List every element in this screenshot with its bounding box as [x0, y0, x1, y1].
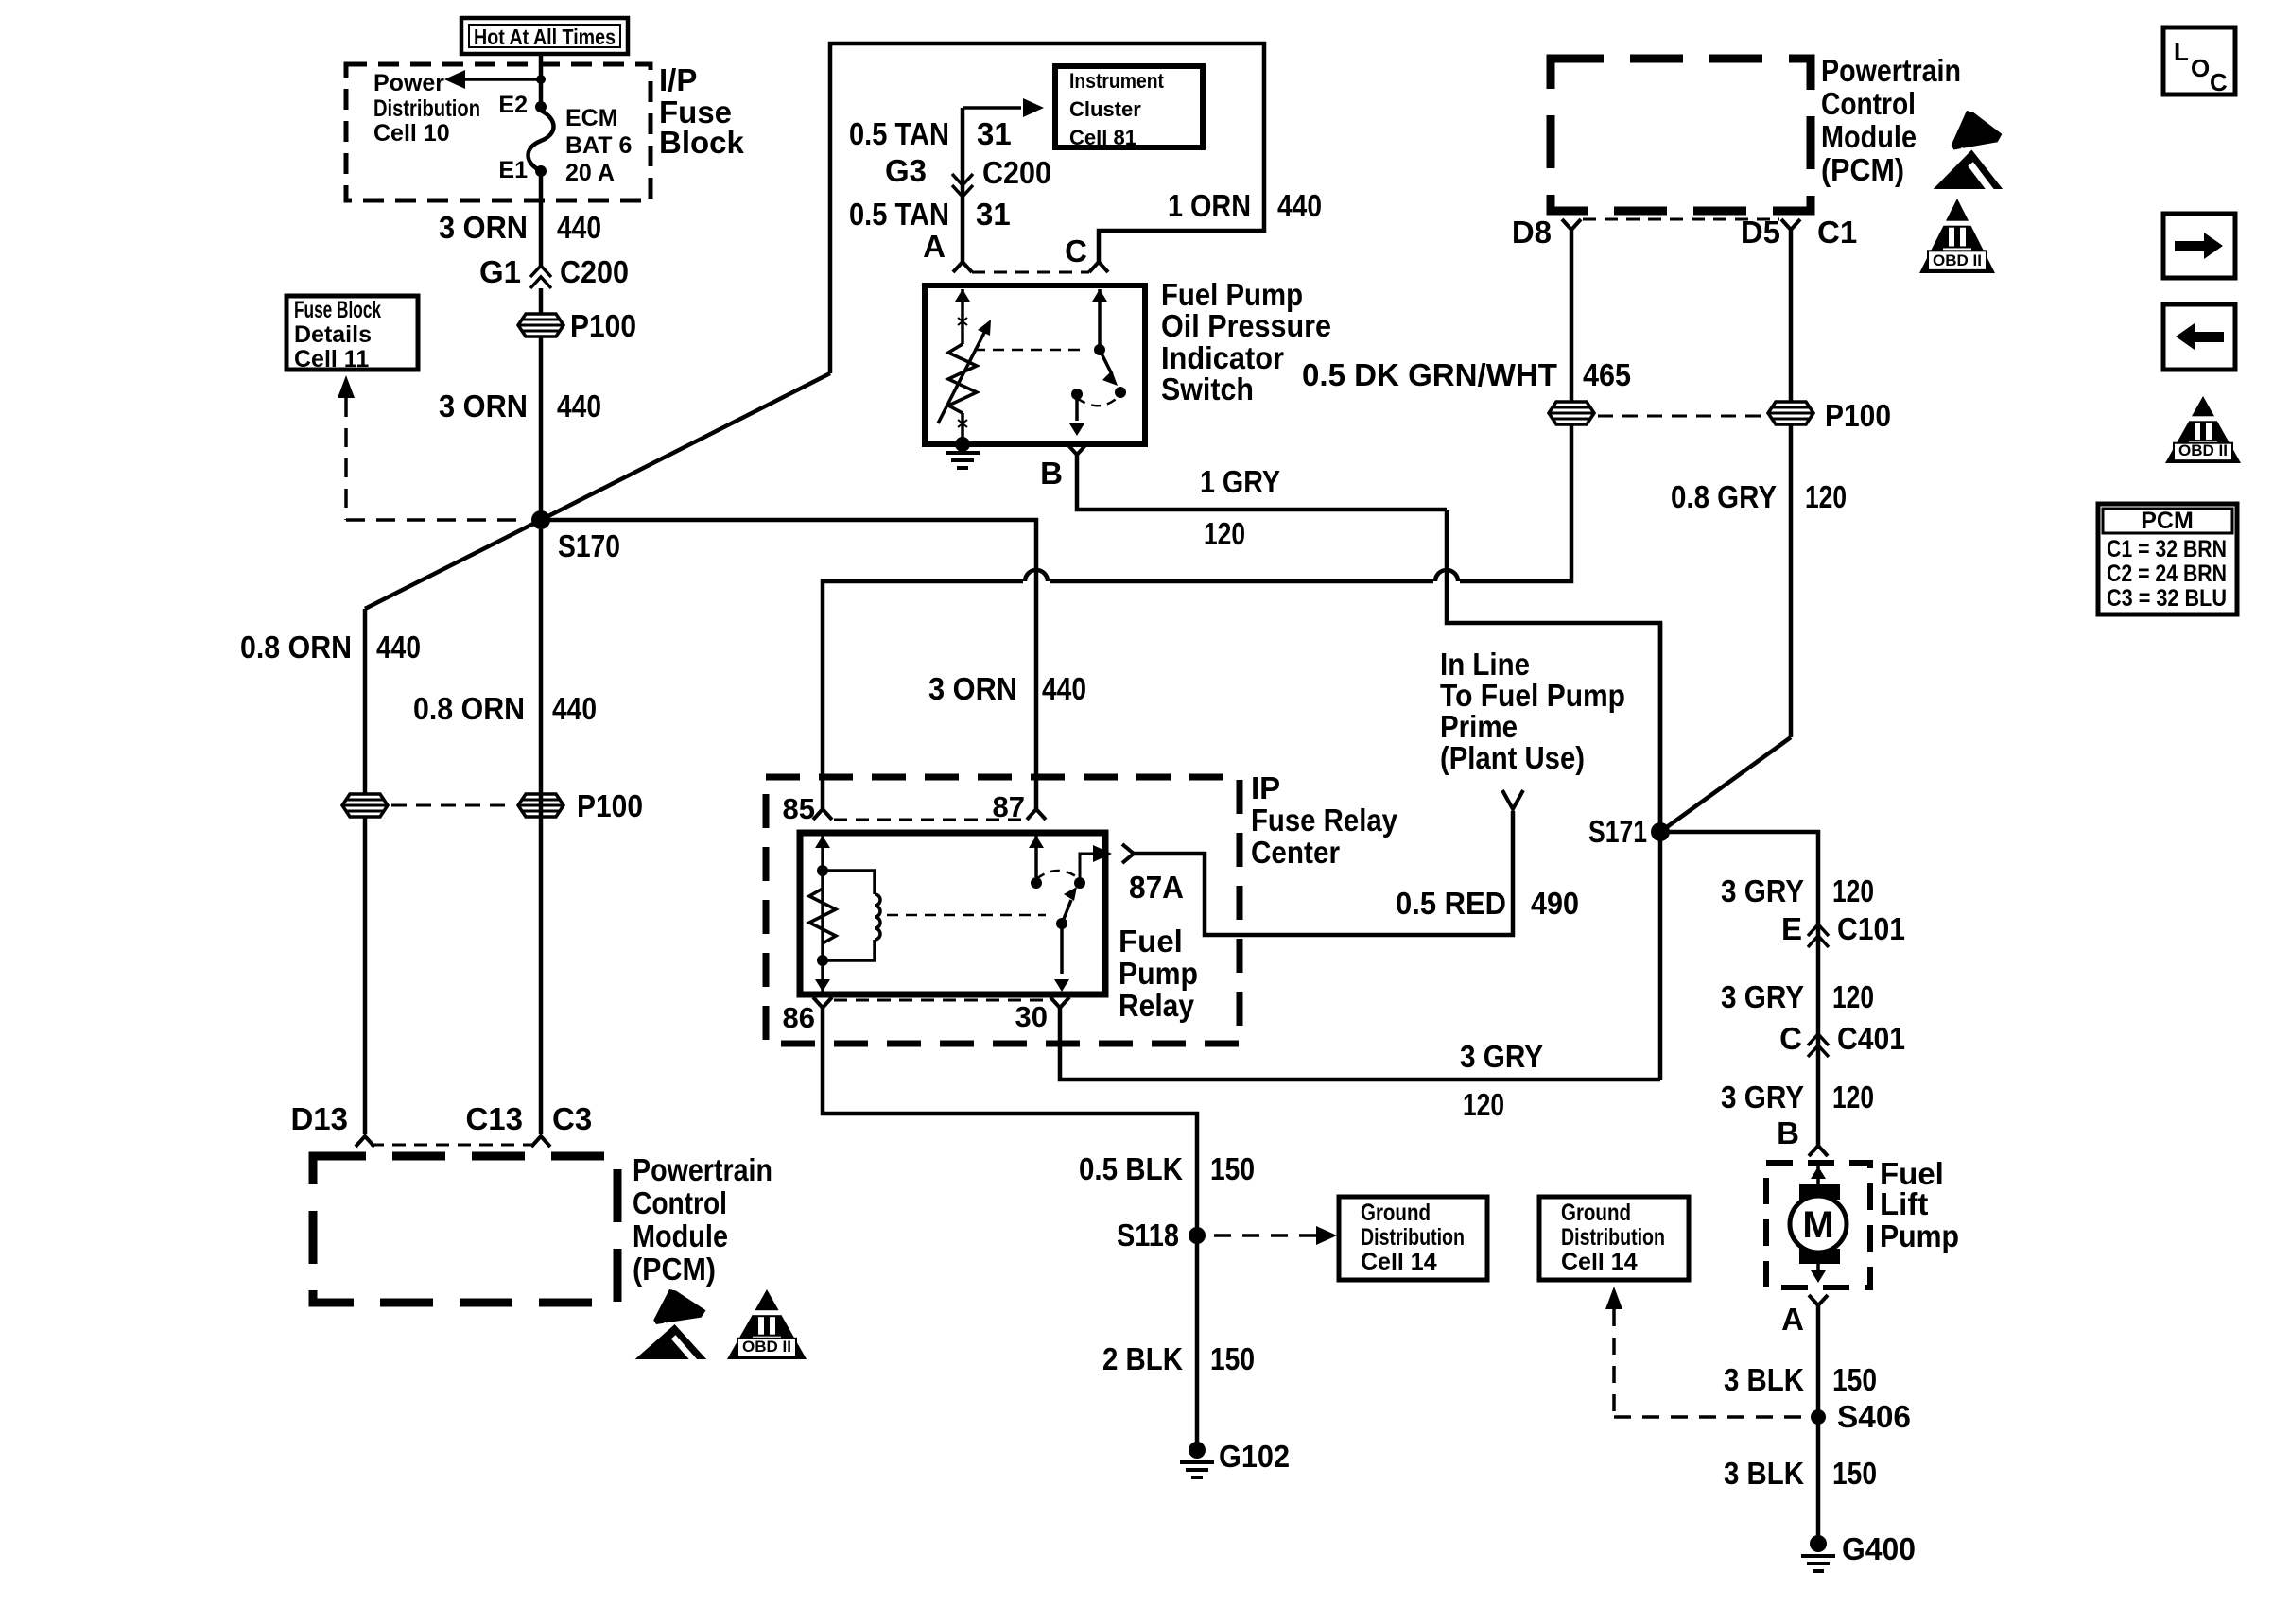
pin in line fuel pump prime — [1502, 790, 1523, 809]
connector P100 (2) left — [342, 794, 388, 817]
dashed arrow S118 to ground distribution — [1214, 1226, 1337, 1245]
svg-text:S406: S406 — [1837, 1399, 1911, 1434]
switch contact C leg — [1092, 289, 1107, 355]
pin dashed line A-C — [972, 271, 1089, 274]
svg-text:Cell 14: Cell 14 — [1561, 1249, 1638, 1275]
svg-text:440: 440 — [557, 210, 601, 245]
svg-text:440: 440 — [1042, 671, 1086, 706]
svg-text:In Line: In Line — [1440, 647, 1530, 682]
svg-text:B: B — [1040, 456, 1063, 491]
svg-text:To Fuel Pump: To Fuel Pump — [1440, 678, 1625, 713]
switch contact blade — [1100, 350, 1118, 386]
svg-text:S118: S118 — [1117, 1218, 1179, 1253]
pin B pump — [1777, 1115, 1828, 1156]
svg-text:0.5 TAN: 0.5 TAN — [849, 197, 949, 232]
pin dashed line 85-87 — [834, 819, 1025, 821]
svg-text:150: 150 — [1832, 1456, 1877, 1491]
svg-text:Hot At All Times: Hot At All Times — [474, 25, 616, 49]
svg-text:1 ORN: 1 ORN — [1168, 188, 1251, 223]
wire 1 GRY B to S171 — [1077, 455, 1660, 832]
sender arrow up — [955, 289, 970, 344]
wire branch to instrument cluster — [961, 108, 965, 262]
PCM connector table — [2098, 504, 2237, 614]
switch contact dot right — [1115, 387, 1126, 398]
svg-text:C2 = 24 BRN: C2 = 24 BRN — [2107, 561, 2227, 587]
relay dashed actuator — [887, 914, 1046, 917]
svg-text:C101: C101 — [1837, 911, 1905, 946]
fuse ECM BAT 6 20A — [529, 105, 633, 186]
wire 86 to S118 — [823, 1008, 1197, 1235]
svg-text:440: 440 — [557, 389, 601, 423]
wire 30 to S171 — [1060, 1008, 1660, 1080]
label 3 ORN 440 (3) — [928, 671, 1086, 706]
svg-text:440: 440 — [1277, 188, 1322, 223]
wire D8 down — [1570, 230, 1574, 402]
svg-text:E1: E1 — [498, 157, 528, 183]
svg-text:Powertrain: Powertrain — [1821, 53, 1961, 88]
svg-text:120: 120 — [1805, 479, 1847, 514]
svg-text:S170: S170 — [558, 528, 620, 563]
resistor adjust arrow — [938, 320, 991, 423]
connector C101 — [1781, 911, 1905, 947]
svg-text:87A: 87A — [1129, 870, 1184, 905]
pin 87A — [1122, 844, 1184, 905]
label 3 BLK 150 (1) — [1724, 1362, 1877, 1397]
svg-text:30: 30 — [1015, 1000, 1048, 1033]
label 3 ORN 440 (1) — [439, 210, 601, 245]
pin D13 — [290, 1101, 374, 1147]
svg-text:Fuel: Fuel — [1119, 924, 1183, 959]
wire 3 ORN trunk up and across top — [830, 43, 1264, 373]
svg-text:Fuse Relay: Fuse Relay — [1251, 803, 1398, 838]
Fuse Block Details Cell 11 box — [286, 296, 418, 372]
In Line To Fuel Pump Prime label — [1440, 647, 1625, 775]
svg-text:3 GRY: 3 GRY — [1721, 979, 1804, 1014]
connector P100 (3) mid — [518, 788, 643, 823]
svg-text:Cell 81: Cell 81 — [1069, 126, 1136, 149]
relay label — [1119, 924, 1198, 1023]
wire D8 connector to relay coil line — [1460, 425, 1571, 581]
splice S171 — [1588, 814, 1670, 849]
svg-text:C3 = 32 BLU: C3 = 32 BLU — [2107, 585, 2227, 612]
svg-text:0.5 TAN: 0.5 TAN — [849, 116, 949, 151]
label 0.5 RED 490 — [1396, 886, 1579, 921]
label 3 BLK 150 (2) — [1724, 1456, 1877, 1491]
dashed pointer to Fuse Block Details — [338, 375, 528, 520]
Power Distribution Cell 10 label — [373, 70, 480, 147]
svg-text:Details: Details — [294, 321, 372, 348]
IP Fuse Relay Center dashed box — [766, 777, 1240, 1044]
splice S406 — [1811, 1399, 1911, 1434]
pin D8 — [1512, 215, 1581, 250]
svg-text:120: 120 — [1832, 1080, 1874, 1114]
IP Fuse Relay Center label — [1251, 770, 1398, 870]
svg-text:Fuse Block: Fuse Block — [294, 297, 381, 323]
svg-text:OBD II: OBD II — [2178, 441, 2228, 459]
ground G400 — [1801, 1531, 1916, 1571]
pin 87 — [993, 790, 1046, 823]
svg-text:Switch: Switch — [1161, 371, 1254, 406]
wire C200 to P100 — [539, 288, 544, 314]
svg-text:G1: G1 — [479, 254, 521, 289]
wire S171 riser — [1658, 623, 1663, 1080]
svg-text:A: A — [923, 229, 946, 264]
connector P100 (1) — [518, 308, 636, 343]
terminal E2 — [498, 92, 547, 118]
svg-text:Distribution: Distribution — [1561, 1224, 1665, 1251]
svg-text:S171: S171 — [1588, 814, 1647, 849]
Fuel Lift Pump dashed box — [1766, 1163, 1870, 1287]
svg-text:OBD II: OBD II — [742, 1338, 791, 1356]
svg-text:2 BLK: 2 BLK — [1102, 1341, 1183, 1376]
pin dashed line D8-D5 — [1583, 218, 1779, 221]
svg-text:3 BLK: 3 BLK — [1724, 1456, 1804, 1491]
sender x marks — [958, 318, 967, 427]
svg-text:Cluster: Cluster — [1069, 97, 1141, 121]
Fuel Pump Relay box — [800, 833, 1105, 994]
svg-text:120: 120 — [1832, 979, 1874, 1014]
OBD II symbol legend — [2165, 396, 2241, 463]
OBD II symbol lower — [727, 1289, 807, 1359]
dashed link P100 pair — [391, 804, 514, 807]
svg-text:3 BLK: 3 BLK — [1724, 1362, 1804, 1397]
connector 465 inline — [1549, 402, 1594, 424]
svg-text:C13: C13 — [465, 1101, 523, 1136]
svg-text:C200: C200 — [560, 254, 629, 289]
switch internal dashed link — [974, 349, 1087, 352]
pin 85 — [783, 792, 832, 825]
svg-text:D8: D8 — [1512, 215, 1552, 250]
svg-text:E: E — [1781, 911, 1802, 946]
svg-text:I/P: I/P — [659, 62, 697, 97]
svg-text:Distribution: Distribution — [373, 95, 480, 122]
label 3 GRY 120 (c) — [1721, 1080, 1874, 1114]
svg-text:O: O — [2191, 54, 2210, 82]
svg-text:3 GRY: 3 GRY — [1460, 1039, 1543, 1074]
wire S118 to G102 — [1195, 1235, 1200, 1450]
svg-text:BAT 6: BAT 6 — [565, 132, 632, 159]
relay moving leg — [1054, 924, 1069, 992]
relay coil — [823, 871, 880, 960]
svg-text:Cell 14: Cell 14 — [1361, 1249, 1437, 1275]
wire E1 down to C200 — [539, 171, 544, 266]
svg-text:E2: E2 — [498, 92, 528, 118]
svg-text:Ground: Ground — [1561, 1200, 1631, 1226]
wire resistor to ground dot — [961, 413, 964, 444]
svg-text:Relay: Relay — [1119, 988, 1195, 1023]
svg-text:G102: G102 — [1219, 1439, 1290, 1474]
svg-text:G3: G3 — [885, 153, 927, 188]
svg-text:Cell 10: Cell 10 — [373, 120, 450, 147]
svg-text:120: 120 — [1832, 873, 1874, 908]
connector P100 (4) right — [1768, 398, 1891, 433]
svg-text:Fuel Pump: Fuel Pump — [1161, 277, 1303, 312]
svg-text:31: 31 — [976, 197, 1011, 232]
wire C1 down — [1789, 230, 1794, 737]
wire relay coil line mid — [1050, 579, 1433, 584]
wire 87A to prime — [1134, 811, 1513, 935]
svg-text:150: 150 — [1832, 1362, 1877, 1397]
LOC box — [2163, 27, 2235, 96]
svg-text:3 ORN: 3 ORN — [439, 210, 528, 245]
ESD symbol lower — [635, 1289, 707, 1365]
pin C13 C3 — [465, 1101, 592, 1147]
svg-text:C1 = 32 BRN: C1 = 32 BRN — [2107, 536, 2227, 562]
svg-text:3 GRY: 3 GRY — [1721, 873, 1804, 908]
dashed link to P100 — [1598, 415, 1764, 418]
svg-text:3 ORN: 3 ORN — [928, 671, 1017, 706]
svg-text:Powertrain: Powertrain — [633, 1152, 772, 1187]
svg-text:490: 490 — [1531, 886, 1579, 921]
label 0.8 ORN 440 (1) — [240, 630, 421, 665]
svg-text:85: 85 — [783, 792, 815, 825]
svg-text:0.5 DK GRN/WHT: 0.5 DK GRN/WHT — [1302, 357, 1557, 392]
svg-text:L: L — [2174, 38, 2189, 66]
label 2 BLK 150 — [1102, 1341, 1255, 1376]
Ground Distribution Cell 14 box (1) — [1339, 1197, 1487, 1280]
relay dashed arc — [1036, 871, 1080, 879]
svg-text:G400: G400 — [1842, 1531, 1916, 1566]
label 3 GRY 120 (b) — [1721, 979, 1874, 1014]
pin 30 — [1015, 997, 1069, 1033]
wire pump to S406 — [1816, 1305, 1821, 1417]
label 3 GRY 120 (a) — [1721, 873, 1874, 908]
svg-text:B: B — [1777, 1115, 1799, 1150]
terminal E1 — [498, 157, 547, 183]
svg-text:P100: P100 — [1825, 398, 1891, 433]
OBD II symbol top — [1919, 199, 1995, 273]
Powertrain Control Module PCM dashed box (top right) — [1551, 59, 1811, 211]
wire relay coil line to pin 85 — [823, 581, 1023, 809]
label 1 GRY 120 — [1200, 464, 1280, 551]
pin dashed line 86-30 — [834, 999, 1049, 1002]
svg-text:150: 150 — [1210, 1151, 1255, 1186]
svg-text:0.5 RED: 0.5 RED — [1396, 886, 1506, 921]
svg-text:120: 120 — [1204, 516, 1245, 551]
svg-text:120: 120 — [1463, 1087, 1504, 1122]
pin C switch — [1065, 233, 1108, 272]
svg-text:C1: C1 — [1817, 215, 1857, 250]
svg-text:440: 440 — [376, 630, 421, 665]
svg-text:0.5 BLK: 0.5 BLK — [1079, 1151, 1183, 1186]
svg-text:A: A — [1781, 1302, 1804, 1337]
pin 86 — [783, 997, 832, 1034]
svg-text:150: 150 — [1210, 1341, 1255, 1376]
svg-text:(PCM): (PCM) — [633, 1252, 716, 1287]
svg-text:C: C — [1065, 233, 1087, 268]
label 0.8 ORN 440 (2) — [413, 691, 597, 726]
pump label — [1880, 1156, 1959, 1253]
svg-text:(PCM): (PCM) — [1821, 152, 1904, 187]
label 0.5 TAN 31 (2) — [849, 197, 1011, 232]
wire S170 to relay 87 — [541, 520, 1036, 809]
variable resistor zigzag — [948, 344, 977, 413]
motor M — [1790, 1166, 1847, 1264]
wire S170 down to C3 — [539, 529, 544, 1134]
connector C200 G1 — [479, 254, 629, 289]
svg-text:C401: C401 — [1837, 1021, 1905, 1056]
relay resistor — [809, 889, 836, 943]
relay 87A contact dot — [1074, 877, 1085, 889]
svg-text:(Plant Use): (Plant Use) — [1440, 740, 1585, 775]
svg-text:Instrument: Instrument — [1069, 69, 1165, 93]
svg-text:Distribution: Distribution — [1361, 1224, 1465, 1251]
svg-text:OBD II: OBD II — [1933, 251, 1982, 269]
junction box label: Hot At All Times — [461, 18, 628, 54]
svg-text:0.8 GRY: 0.8 GRY — [1671, 479, 1777, 514]
arrow to Power Distribution — [444, 70, 546, 89]
wire P100 to S170 — [539, 337, 544, 520]
svg-text:Module: Module — [1821, 119, 1917, 154]
Fuel Pump Oil Pressure Indicator Switch box — [925, 285, 1145, 444]
switch contact B dot — [1071, 389, 1083, 400]
svg-text:M: M — [1802, 1204, 1833, 1246]
label 0.5 TAN 31 (1) — [849, 116, 1012, 151]
svg-text:Cell 11: Cell 11 — [294, 346, 369, 372]
svg-text:D13: D13 — [290, 1101, 348, 1136]
wire S171 to pump top — [1660, 832, 1818, 1146]
pin B switch — [1040, 444, 1086, 491]
svg-text:Indicator: Indicator — [1161, 340, 1284, 375]
label 0.5 DK GRN/WHT 465 — [1302, 357, 1631, 392]
label 0.8 GRY 120 — [1671, 479, 1847, 514]
Powertrain Control Module PCM dashed box (lower left) — [313, 1156, 617, 1303]
svg-text:Control: Control — [1821, 86, 1916, 121]
svg-text:Lift: Lift — [1880, 1186, 1928, 1221]
svg-text:C200: C200 — [982, 155, 1051, 190]
svg-text:ECM: ECM — [565, 105, 618, 131]
svg-text:Power: Power — [373, 70, 444, 96]
connector C200 G3 — [885, 153, 1051, 197]
relay 87 contact — [1029, 836, 1044, 889]
svg-text:C3: C3 — [552, 1101, 592, 1136]
svg-text:Module: Module — [633, 1218, 728, 1253]
svg-text:86: 86 — [783, 1001, 815, 1034]
left arrow box — [2163, 304, 2235, 370]
pin A switch — [923, 229, 972, 272]
svg-text:P100: P100 — [570, 308, 636, 343]
svg-text:440: 440 — [552, 691, 597, 726]
svg-text:3 GRY: 3 GRY — [1721, 1080, 1804, 1114]
label 1 ORN 440 — [1168, 188, 1322, 223]
label 3 ORN 440 (2) — [439, 389, 601, 423]
wire from Hot At All Times to E2 — [539, 56, 544, 107]
wire S406 to G400 — [1816, 1417, 1821, 1544]
switch dashed arc — [1077, 397, 1119, 406]
Ground Distribution Cell 14 box (2) — [1539, 1197, 1689, 1280]
I/P Fuse Block dashed box — [346, 64, 651, 200]
switch B arrow down — [1069, 394, 1084, 436]
dashed pointer box2 to S406 — [1605, 1287, 1801, 1417]
svg-text:PCM: PCM — [2141, 508, 2194, 534]
svg-text:0.8 ORN: 0.8 ORN — [413, 691, 525, 726]
sender ground — [946, 437, 980, 468]
pin dashed line D13-C3 — [371, 1144, 533, 1147]
pin D5 C1 — [1741, 215, 1857, 250]
svg-text:0.8 ORN: 0.8 ORN — [240, 630, 352, 665]
pin A pump — [1781, 1295, 1828, 1337]
wire left branch down to D13 — [363, 609, 368, 1134]
svg-text:Center: Center — [1251, 835, 1340, 870]
wire S170 diagonal to left branch — [365, 520, 541, 609]
Instrument Cluster Cell 81 box — [1055, 66, 1203, 149]
svg-text:465: 465 — [1583, 357, 1631, 392]
svg-text:3 ORN: 3 ORN — [439, 389, 528, 423]
I/P Fuse Block label — [659, 62, 745, 160]
svg-text:20 A: 20 A — [565, 160, 615, 186]
svg-text:Oil Pressure: Oil Pressure — [1161, 308, 1331, 343]
arrow into Instrument Cluster — [963, 98, 1044, 117]
wire C1 diagonal to S171 — [1660, 737, 1791, 832]
svg-text:Block: Block — [659, 125, 745, 160]
right arrow box — [2163, 214, 2235, 278]
label 3 GRY 120 (horizontal) — [1460, 1039, 1543, 1122]
connector C401 — [1779, 1021, 1905, 1057]
relay coil leg — [815, 836, 830, 992]
motor arrow down — [1811, 1261, 1826, 1283]
PCM lower label — [633, 1152, 772, 1287]
ESD symbol top — [1934, 111, 2003, 196]
svg-text:C: C — [2210, 68, 2228, 96]
svg-text:Pump: Pump — [1119, 956, 1198, 991]
hop over 1GRY — [1435, 570, 1458, 581]
svg-text:Ground: Ground — [1361, 1200, 1431, 1226]
svg-text:Prime: Prime — [1440, 709, 1518, 744]
label 0.5 BLK 150 — [1079, 1151, 1255, 1186]
ground G102 — [1180, 1439, 1290, 1477]
svg-text:Control: Control — [633, 1185, 727, 1220]
relay moving contact — [1056, 887, 1077, 929]
svg-text:Pump: Pump — [1880, 1218, 1959, 1253]
hop over 3ORN — [1025, 570, 1048, 581]
wire S170 up-right diagonal — [541, 373, 830, 520]
switch label — [1161, 277, 1331, 406]
svg-text:IP: IP — [1251, 770, 1280, 805]
relay 87A link — [1080, 845, 1112, 879]
svg-text:C: C — [1779, 1021, 1802, 1056]
PCM top label — [1821, 53, 1961, 187]
splice S170 — [531, 510, 620, 563]
svg-text:31: 31 — [977, 116, 1012, 151]
svg-text:1 GRY: 1 GRY — [1200, 464, 1280, 499]
splice S118 — [1117, 1218, 1206, 1253]
svg-text:P100: P100 — [577, 788, 643, 823]
